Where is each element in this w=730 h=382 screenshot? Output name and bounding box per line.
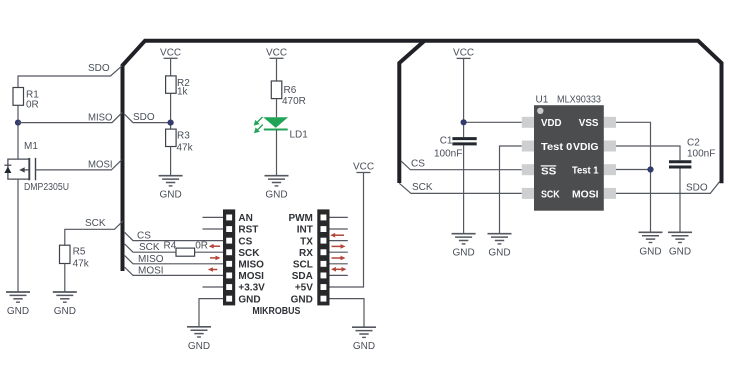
wire MOSI from M1 gate (left) <box>36 160 122 170</box>
wire C2 to ground <box>679 169 681 233</box>
wire VCC to C1 <box>463 59 465 137</box>
wire MISO (left) <box>18 112 122 122</box>
svg-text:SDA: SDA <box>292 271 313 282</box>
svg-text:DMP2305U: DMP2305U <box>24 182 69 193</box>
svg-text:PWM: PWM <box>288 213 312 224</box>
svg-text:MOSI: MOSI <box>238 271 264 282</box>
ground (right header) <box>352 327 376 352</box>
ground (left header) <box>187 327 211 352</box>
svg-text:C2: C2 <box>687 138 700 149</box>
ground (M1) <box>6 292 30 317</box>
board outline snap-off divider <box>399 41 424 183</box>
svg-text:M1: M1 <box>24 141 38 152</box>
svg-text:SCL: SCL <box>293 260 313 271</box>
wire M1 drain to ground <box>17 179 19 292</box>
wire SCK to header with R4 <box>125 244 223 252</box>
wire +5V to VCC <box>330 173 364 287</box>
resistor R5 <box>60 245 71 263</box>
svg-text:VDIG: VDIG <box>573 142 599 153</box>
svg-text:AN: AN <box>238 213 252 224</box>
power VCC (header) <box>353 162 374 173</box>
wire CS to header <box>125 232 223 240</box>
svg-text:GND: GND <box>238 294 260 305</box>
pin labels right header <box>288 213 313 305</box>
svg-text:U1: U1 <box>536 95 549 106</box>
wire RST stub <box>203 228 224 230</box>
capacitor C1 <box>434 136 477 160</box>
svg-text:SDO: SDO <box>88 63 110 74</box>
arrow red right (MISO row) <box>210 257 217 259</box>
pin labels left header <box>238 213 265 305</box>
svg-text:TX: TX <box>300 236 313 247</box>
connector right header column <box>317 209 329 305</box>
svg-text:47k: 47k <box>177 143 194 154</box>
svg-text:SDO: SDO <box>686 183 708 194</box>
wire Test0 to ground <box>500 146 522 234</box>
svg-text:C1: C1 <box>440 136 453 147</box>
wire VCC to R2 <box>170 59 172 76</box>
arrow red left (INT/TX) <box>334 234 345 236</box>
svg-text:MLX90333: MLX90333 <box>557 95 601 106</box>
svg-text:47k: 47k <box>73 259 90 270</box>
wire VCC to R6 <box>276 59 278 81</box>
power VCC (sensor section) <box>453 47 474 58</box>
wire SCK (left) <box>65 221 123 245</box>
svg-text:MIKROBUS: MIKROBUS <box>252 306 300 317</box>
svg-text:Test 1: Test 1 <box>572 166 599 177</box>
svg-text:100nF: 100nF <box>434 149 462 160</box>
svg-text:+5V: +5V <box>295 283 313 294</box>
ground (Test0) <box>488 234 512 259</box>
wire GND left header <box>199 299 223 327</box>
wire MOSI / SDO (sensor) <box>616 182 720 194</box>
svg-text:SS: SS <box>541 166 557 177</box>
svg-text:0R: 0R <box>195 241 208 252</box>
svg-text:SCK: SCK <box>541 189 560 200</box>
svg-text:CS: CS <box>411 159 425 170</box>
svg-text:MOSI: MOSI <box>88 160 113 171</box>
power VCC (R2 branch) <box>160 47 181 58</box>
svg-text:MISO: MISO <box>88 113 113 124</box>
svg-text:0R: 0R <box>26 100 39 111</box>
wire VSS to ground <box>616 122 651 232</box>
svg-text:SCK: SCK <box>412 182 433 193</box>
arrow red left (MOSI row) <box>211 269 217 271</box>
svg-text:1k: 1k <box>177 87 189 98</box>
svg-text:MOSI: MOSI <box>138 266 164 277</box>
wire MOSI to header <box>125 267 223 275</box>
wire CS (sensor) <box>401 161 522 170</box>
svg-text:CS: CS <box>238 236 252 247</box>
wire SDO (inside) <box>125 114 171 122</box>
wire R5 to ground <box>64 264 66 293</box>
wire R6 to LED <box>276 99 278 118</box>
svg-text:GND: GND <box>291 294 313 305</box>
wire LED to ground <box>276 130 278 176</box>
wire VDD <box>464 121 522 123</box>
wire +3.3V stub <box>203 286 224 288</box>
connector left header column <box>223 209 235 305</box>
ground (R5) <box>53 292 77 317</box>
wire C1 to ground <box>463 146 465 234</box>
arrow red right (TX/RX) <box>332 245 343 247</box>
svg-text:+3.3V: +3.3V <box>238 283 265 294</box>
op-amp U1 MLX90333 <box>522 95 616 211</box>
resistor R3 <box>166 129 177 146</box>
wire PWM stub <box>330 216 348 218</box>
svg-text:LD1: LD1 <box>290 130 309 141</box>
svg-text:RX: RX <box>299 248 313 259</box>
wire GND right header <box>330 299 365 328</box>
svg-text:470R: 470R <box>282 96 306 107</box>
node junction dot R1/MISO <box>15 120 21 126</box>
node junction dot Test1/VSS <box>647 166 653 172</box>
svg-text:SDO: SDO <box>133 112 155 123</box>
capacitor C2 <box>669 138 715 168</box>
wire RX stub <box>330 251 348 253</box>
svg-text:MISO: MISO <box>238 260 264 271</box>
arrow red both (SCL/SDA) <box>335 268 344 270</box>
resistor R1 <box>13 88 24 106</box>
ground (C1) <box>452 234 476 259</box>
svg-text:R3: R3 <box>177 131 190 142</box>
svg-text:MOSI: MOSI <box>572 189 599 200</box>
wire TX stub <box>330 240 348 242</box>
ground (LED) <box>265 176 289 201</box>
svg-text:R6: R6 <box>284 85 297 96</box>
svg-text:CS: CS <box>137 231 151 242</box>
svg-text:MISO: MISO <box>138 254 164 265</box>
ground (VSS) <box>639 232 663 257</box>
wire R2 to R3 <box>170 93 172 129</box>
wire SCK (sensor) <box>399 183 522 193</box>
svg-text:SCK: SCK <box>139 242 160 253</box>
svg-text:SCK: SCK <box>238 248 260 259</box>
wire SCL stub <box>330 263 348 265</box>
arrow red right (RX/SCL) <box>332 257 343 259</box>
arrow red left (SCK row) <box>212 245 220 247</box>
ground (R3) <box>159 176 183 201</box>
svg-text:VSS: VSS <box>579 118 599 129</box>
transistor M1 DMP2305U <box>4 141 69 193</box>
power VCC (LED branch) <box>266 47 287 58</box>
board outline <box>123 41 722 271</box>
resistor R6 <box>271 81 282 99</box>
wire AN stub <box>203 216 224 218</box>
wire SDO (left) <box>18 66 122 88</box>
wire R1 bottom to M1 source <box>17 105 19 159</box>
svg-text:VDD: VDD <box>541 118 562 129</box>
resistor R4 <box>176 248 195 256</box>
ground (C2) <box>668 232 692 257</box>
svg-text:Test 0: Test 0 <box>541 142 573 153</box>
svg-text:R4: R4 <box>164 241 177 252</box>
wire Test1 to VSS rail <box>616 169 651 171</box>
wire INT stub <box>330 228 348 230</box>
svg-text:100nF: 100nF <box>687 149 715 160</box>
svg-text:SCK: SCK <box>85 218 106 229</box>
wire R3 to ground <box>170 147 172 176</box>
svg-text:RST: RST <box>238 225 258 236</box>
LED LD1 <box>254 117 309 141</box>
wire VDIG to C2 <box>616 146 680 160</box>
node junction dot R2/R3/SDO <box>168 120 174 126</box>
node junction dot VCC/VDD <box>461 119 467 125</box>
svg-text:R5: R5 <box>73 247 86 258</box>
wire MISO to header <box>125 256 223 264</box>
resistor R2 <box>166 76 177 93</box>
svg-text:INT: INT <box>297 225 313 236</box>
wire SDA stub <box>330 274 348 276</box>
